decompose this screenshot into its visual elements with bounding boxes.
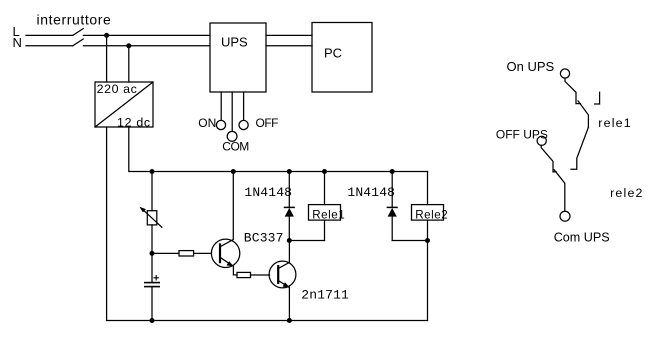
PC box	[312, 23, 372, 93]
diode D2 1N4148 top lead	[391, 172, 393, 208]
rheostat R1 arrow	[143, 209, 162, 227]
transistor Q1 emitter with arrow	[220, 257, 233, 266]
wire UPS ON pin	[220, 92, 222, 120]
wire N right segment to UPS	[83, 45, 210, 47]
wire N junction down to supply	[128, 46, 130, 82]
wire Rele1 top lead	[324, 172, 326, 205]
svg-text:interruttore: interruttore	[37, 11, 112, 27]
relay contact K1 moving arm	[578, 101, 588, 127]
transistor Q1 base bar	[219, 244, 221, 262]
relay contact K2 lead-in	[541, 145, 556, 172]
diode D1 cathode bar	[285, 206, 295, 208]
wire UPS OFF pin	[243, 92, 245, 120]
svg-text:COM: COM	[222, 140, 249, 154]
relay contact K1 arm lower end	[571, 127, 588, 169]
svg-text:220 ac: 220 ac	[97, 82, 138, 96]
svg-text:rele2: rele2	[610, 186, 644, 200]
svg-text:12 dc: 12 dc	[117, 116, 151, 130]
diode D2 triangle	[388, 208, 397, 217]
node Q2 collector junction	[287, 238, 292, 243]
wire Rele1 bottom lead	[324, 220, 326, 240]
node junction on L	[104, 33, 109, 38]
svg-text:ON: ON	[198, 116, 216, 130]
relay contact K1 fixed contact	[595, 92, 600, 104]
wire to base resistor	[152, 252, 179, 254]
capacitor C1 plus sign	[154, 276, 158, 280]
svg-text:N: N	[13, 35, 22, 50]
svg-text:2n1711: 2n1711	[301, 288, 349, 303]
svg-text:1N4148: 1N4148	[244, 185, 292, 200]
power supply PS1 220ac/12dc box	[95, 82, 153, 127]
wire L right segment to UPS	[83, 34, 210, 36]
node divider junction	[150, 251, 155, 256]
capacitor C1 plates	[145, 282, 159, 284]
transistor Q1 BC337 circle	[211, 239, 239, 267]
node rail dot C (diode D1)	[287, 169, 292, 174]
node rail dot E (diode D2)	[390, 169, 395, 174]
svg-text:1N4148: 1N4148	[347, 185, 395, 200]
wire resistor to 2n1711 base	[251, 274, 270, 276]
wire ground bottom rail	[107, 320, 428, 322]
transistor Q1 collector	[220, 172, 233, 247]
relay coil Rele2 box	[412, 205, 444, 221]
wire right vertical of loop	[427, 172, 429, 205]
svg-text:OFF UPS: OFF UPS	[496, 128, 548, 142]
transistor Q2 2n1711 circle	[269, 261, 296, 288]
wire N left segment	[26, 45, 73, 47]
wire resistor to BC337 base	[194, 252, 212, 254]
svg-text:OFF: OFF	[256, 116, 279, 130]
node ground rail dot (cap branch)	[150, 318, 155, 323]
node rail dot D (Rele1)	[322, 169, 327, 174]
resistor R3 body	[237, 272, 251, 277]
wire 12dc left output down to ground rail	[106, 127, 108, 321]
diode D2 cathode bar	[387, 206, 397, 208]
terminal OFF UPS	[537, 136, 546, 145]
diode D1 triangle	[285, 208, 294, 217]
node junction on N	[126, 43, 131, 48]
wire L left segment	[26, 34, 73, 36]
svg-text:Rele2: Rele2	[415, 209, 448, 222]
wire 12dc right output down and +12V top rail	[129, 127, 428, 172]
svg-text:BC337: BC337	[244, 231, 284, 246]
svg-text:UPS: UPS	[221, 35, 248, 50]
diode D1 1N4148 top lead	[288, 172, 290, 208]
resistor R2 body	[179, 251, 194, 256]
wire Rele2 bottom lead to ground rail	[427, 220, 429, 320]
svg-text:PC: PC	[324, 46, 342, 61]
terminal COM	[227, 131, 237, 141]
relay coil Rele1 box	[309, 205, 341, 221]
wire rheostat top lead	[151, 172, 153, 211]
transistor Q2 collector	[278, 241, 289, 269]
transistor Q2 emitter with arrow	[278, 281, 289, 288]
node ground rail dot (Q2 emitter)	[287, 318, 292, 323]
diode D2 bottom lead	[391, 217, 393, 241]
relay contact K1 lead-in	[565, 78, 580, 104]
wire D2/Rele2 bottom link	[392, 240, 427, 242]
switch SW1 blade (N)	[73, 39, 83, 46]
node Rele2 bottom junction	[425, 238, 430, 243]
terminal Com UPS	[560, 211, 570, 221]
node rail dot B (BC337 collector)	[231, 169, 236, 174]
wire rheostat bottom lead	[151, 225, 153, 254]
terminal OFF	[239, 120, 248, 129]
svg-text:rele1: rele1	[598, 116, 632, 130]
relay contact K2 moving arm	[554, 170, 565, 212]
svg-text:Rele1: Rele1	[312, 209, 345, 222]
transistor Q2 base bar	[277, 266, 279, 283]
wire UPS COM pin	[231, 92, 233, 131]
wire L junction down to supply	[106, 35, 108, 82]
UPS box	[210, 23, 266, 92]
switch SW1 blade (L)	[73, 29, 83, 36]
terminal On UPS	[560, 69, 569, 78]
capacitor C1 wire upper	[151, 253, 153, 282]
node rail dot A (rheostat branch)	[150, 169, 155, 174]
diode D1 bottom lead	[288, 217, 290, 241]
capacitor C1 wire lower	[151, 287, 153, 321]
wire D1/Rele1 bottom link	[289, 240, 324, 242]
rheostat R1 body	[147, 211, 157, 225]
wire UPS to PC lower	[266, 45, 312, 47]
terminal ON	[216, 120, 225, 129]
svg-text:On UPS: On UPS	[507, 59, 555, 74]
wire UPS to PC upper	[266, 34, 312, 36]
svg-text:Com UPS: Com UPS	[554, 231, 610, 245]
